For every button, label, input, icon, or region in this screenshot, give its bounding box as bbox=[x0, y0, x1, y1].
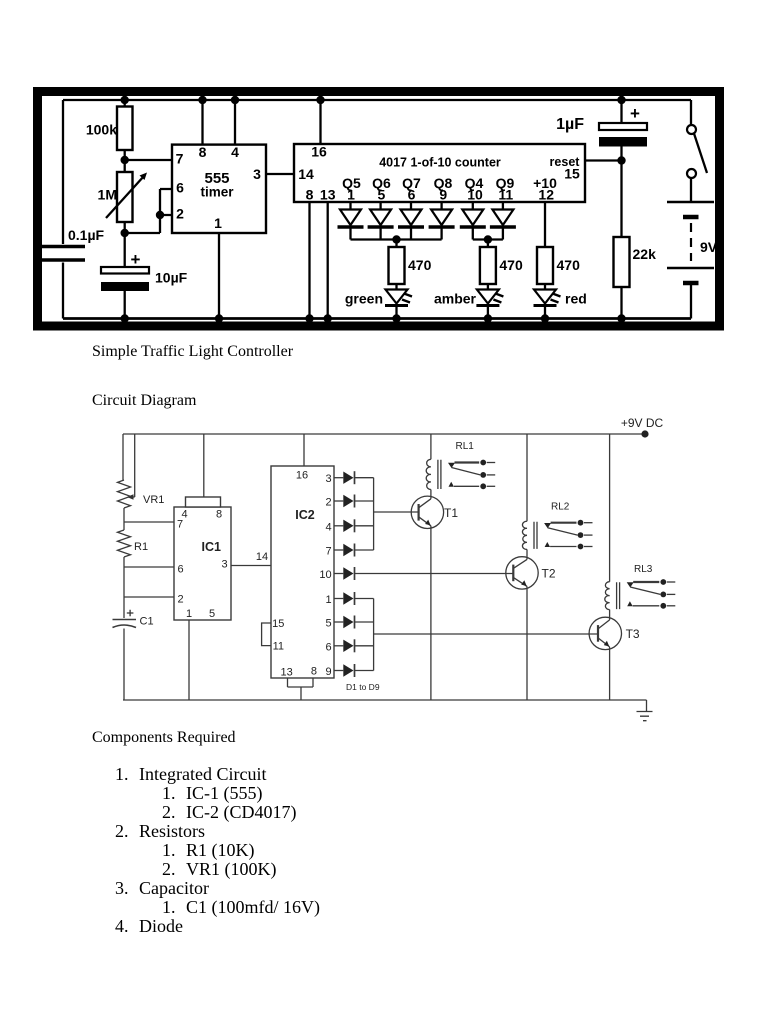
resistor 470 (amber) bbox=[487, 240, 489, 248]
capacitor 10uF bbox=[124, 233, 126, 267]
transistor T2 bbox=[506, 557, 538, 589]
wire amber bus bbox=[473, 238, 503, 240]
LED green bbox=[395, 284, 397, 289]
relay RL3 contacts bbox=[627, 582, 634, 587]
svg-text:2: 2 bbox=[177, 594, 183, 606]
diode D7 bbox=[334, 621, 343, 623]
wire to pin 2 bbox=[124, 567, 174, 597]
node LED green rail bbox=[392, 314, 400, 322]
wire IC1 pin1 to 0V bbox=[188, 620, 190, 700]
wire pin 12 bbox=[544, 202, 546, 247]
wire T1 collector column bbox=[430, 434, 432, 459]
switch SW1 bbox=[690, 100, 692, 125]
op 4017 counter U2 bbox=[294, 144, 585, 202]
svg-text:2: 2 bbox=[325, 497, 331, 509]
svg-text:6: 6 bbox=[325, 641, 331, 653]
wire to pin 7 bbox=[124, 508, 174, 522]
svg-text:7: 7 bbox=[177, 519, 183, 531]
node pin 13 rail bbox=[324, 314, 332, 322]
svg-text:+9V DC: +9V DC bbox=[621, 416, 664, 430]
battery 9V bbox=[667, 201, 714, 204]
svg-text:10: 10 bbox=[319, 569, 331, 581]
transistor T3 bbox=[589, 617, 621, 649]
wire +9V top rail bbox=[123, 433, 645, 435]
svg-text:5: 5 bbox=[325, 618, 331, 630]
diode D1 bbox=[334, 477, 343, 479]
wire 1uF to reset node bbox=[620, 147, 622, 161]
potentiometer 1M bbox=[124, 160, 126, 172]
svg-text:13: 13 bbox=[280, 666, 292, 678]
resistor 470 (green) bbox=[395, 240, 397, 248]
svg-text:15: 15 bbox=[272, 618, 284, 630]
wire pin 1 to 0V bbox=[218, 233, 220, 319]
wire green bus bbox=[351, 238, 442, 240]
svg-text:RL2: RL2 bbox=[551, 502, 570, 513]
svg-text:T2: T2 bbox=[542, 566, 556, 580]
diode D3 bbox=[410, 202, 412, 209]
wire VR1 wiper bbox=[131, 434, 135, 497]
diode D2 bbox=[334, 500, 343, 502]
node pin 2 bbox=[156, 211, 164, 219]
wire T3 emitter to 0V bbox=[609, 647, 611, 700]
svg-text:11: 11 bbox=[273, 641, 284, 653]
resistor 470 (red) bbox=[537, 247, 553, 284]
wire T2 collector column bbox=[526, 434, 528, 521]
svg-text:3: 3 bbox=[325, 473, 331, 485]
node pin 8 rail bbox=[305, 314, 313, 322]
caption bbox=[92, 343, 293, 361]
wire pin 4 bbox=[234, 100, 236, 145]
resistor 22k bbox=[620, 161, 622, 238]
node 100k/1M/pin7 bbox=[121, 156, 129, 164]
diode D8 bbox=[334, 645, 343, 647]
node +9V DC bbox=[641, 430, 648, 437]
components list bbox=[0, 764, 768, 766]
wire 1M bottom to pins 6/2 bbox=[125, 189, 172, 233]
node 1M bottom bbox=[121, 229, 129, 237]
wire pin 13 to 0V bbox=[327, 202, 329, 319]
op IC1 555 bbox=[174, 507, 231, 620]
wire pins 15-11 bracket bbox=[262, 623, 271, 646]
LED red bbox=[544, 284, 546, 289]
node pin 4 rail bbox=[231, 96, 239, 104]
diode D1 bbox=[349, 202, 351, 209]
svg-text:3: 3 bbox=[221, 559, 227, 571]
node pin 16 rail bbox=[316, 96, 324, 104]
svg-text:8: 8 bbox=[216, 509, 222, 521]
wire bus1 to T1 base bbox=[374, 511, 419, 513]
resistor 100k bbox=[124, 100, 126, 107]
capacitor 0.1uF bbox=[40, 245, 85, 248]
relay RL1 contacts bbox=[448, 463, 455, 468]
pin 16 wire bbox=[319, 100, 321, 144]
wire T2 emitter to 0V bbox=[526, 586, 528, 700]
svg-text:8: 8 bbox=[311, 666, 317, 678]
wire top supply rail bbox=[63, 99, 691, 101]
svg-text:R1: R1 bbox=[134, 541, 148, 553]
node 10uF bottom rail bbox=[121, 314, 129, 322]
node pin1 rail bbox=[215, 314, 223, 322]
node reset bbox=[617, 156, 625, 164]
node LED red rail bbox=[541, 314, 549, 322]
heading Circuit Diagram bbox=[92, 392, 196, 410]
diode D3 bbox=[334, 525, 343, 527]
wire pin 7 bbox=[125, 159, 172, 161]
svg-text:1: 1 bbox=[186, 608, 192, 620]
relay RL2 contacts bbox=[544, 523, 551, 528]
wire left rail bbox=[122, 434, 124, 480]
transistor T1 bbox=[411, 496, 443, 528]
wire left branch bbox=[62, 100, 64, 319]
wire IC1 pin3 to IC2 pin14 bbox=[231, 565, 271, 567]
svg-text:7: 7 bbox=[325, 546, 331, 558]
node top rail / 100k bbox=[121, 96, 129, 104]
wire diode bus 1 bbox=[373, 478, 375, 550]
wire 0V bottom rail bbox=[123, 699, 647, 701]
resistor R1 bbox=[123, 522, 125, 530]
node 22k rail bbox=[617, 314, 625, 322]
svg-text:16: 16 bbox=[296, 470, 308, 482]
diode D4 bbox=[440, 202, 442, 209]
node amber bus bbox=[484, 235, 492, 243]
capacitor C1 bbox=[123, 597, 125, 618]
diode D9 bbox=[334, 670, 343, 672]
svg-text:RL3: RL3 bbox=[634, 564, 653, 575]
svg-text:4: 4 bbox=[325, 521, 331, 533]
wire T3 collector column bbox=[609, 434, 611, 582]
relay coil RL1 bbox=[426, 459, 431, 489]
LED amber bbox=[487, 284, 489, 289]
op 555 timer U1 bbox=[172, 145, 266, 233]
diode D5 bbox=[334, 573, 343, 575]
svg-text:T1: T1 bbox=[444, 506, 458, 520]
ground bbox=[646, 700, 648, 712]
wire to pin 6 bbox=[124, 557, 174, 567]
svg-text:5: 5 bbox=[209, 608, 215, 620]
wire bus2 to T3 base bbox=[374, 633, 598, 635]
relay coil RL3 bbox=[605, 582, 610, 610]
svg-text:D1 to D9: D1 to D9 bbox=[346, 682, 380, 692]
diode D6 bbox=[502, 202, 504, 209]
op IC2 4017 bbox=[271, 466, 334, 678]
svg-text:VR1: VR1 bbox=[143, 494, 164, 506]
diode D4 bbox=[334, 549, 343, 551]
potentiometer VR1 bbox=[118, 480, 131, 508]
diode D5 bbox=[472, 202, 474, 209]
diode D6 bbox=[334, 598, 343, 600]
wire reset pin 15 bbox=[585, 159, 622, 161]
wire T1 emitter to 0V bbox=[430, 526, 432, 700]
svg-text:T3: T3 bbox=[626, 627, 640, 641]
wire pin 8 to 0V bbox=[308, 202, 310, 319]
wire bottom 0V rail bbox=[63, 317, 691, 320]
wire pin 3 to 4017 pin 14 bbox=[266, 173, 294, 175]
capacitor 1uF bbox=[620, 100, 622, 123]
wire diode bus 2 bbox=[373, 599, 375, 671]
relay coil RL2 bbox=[522, 521, 527, 549]
svg-text:1: 1 bbox=[325, 594, 331, 606]
svg-text:RL1: RL1 bbox=[456, 441, 475, 452]
svg-text:14: 14 bbox=[256, 551, 268, 563]
node LED amber rail bbox=[484, 314, 492, 322]
diode D2 bbox=[379, 202, 381, 209]
svg-text:9: 9 bbox=[325, 666, 331, 678]
wire pins 13-8 to 0V bbox=[288, 678, 314, 700]
svg-text:IC2: IC2 bbox=[295, 508, 315, 522]
heading Components Required bbox=[92, 729, 236, 747]
node pin 8 rail bbox=[198, 96, 206, 104]
svg-text:6: 6 bbox=[177, 564, 183, 576]
svg-text:C1: C1 bbox=[140, 616, 154, 628]
node green bus bbox=[392, 235, 400, 243]
node 1uF rail bbox=[617, 96, 625, 104]
wire pin 8 bbox=[201, 100, 203, 145]
svg-text:IC1: IC1 bbox=[202, 540, 222, 554]
